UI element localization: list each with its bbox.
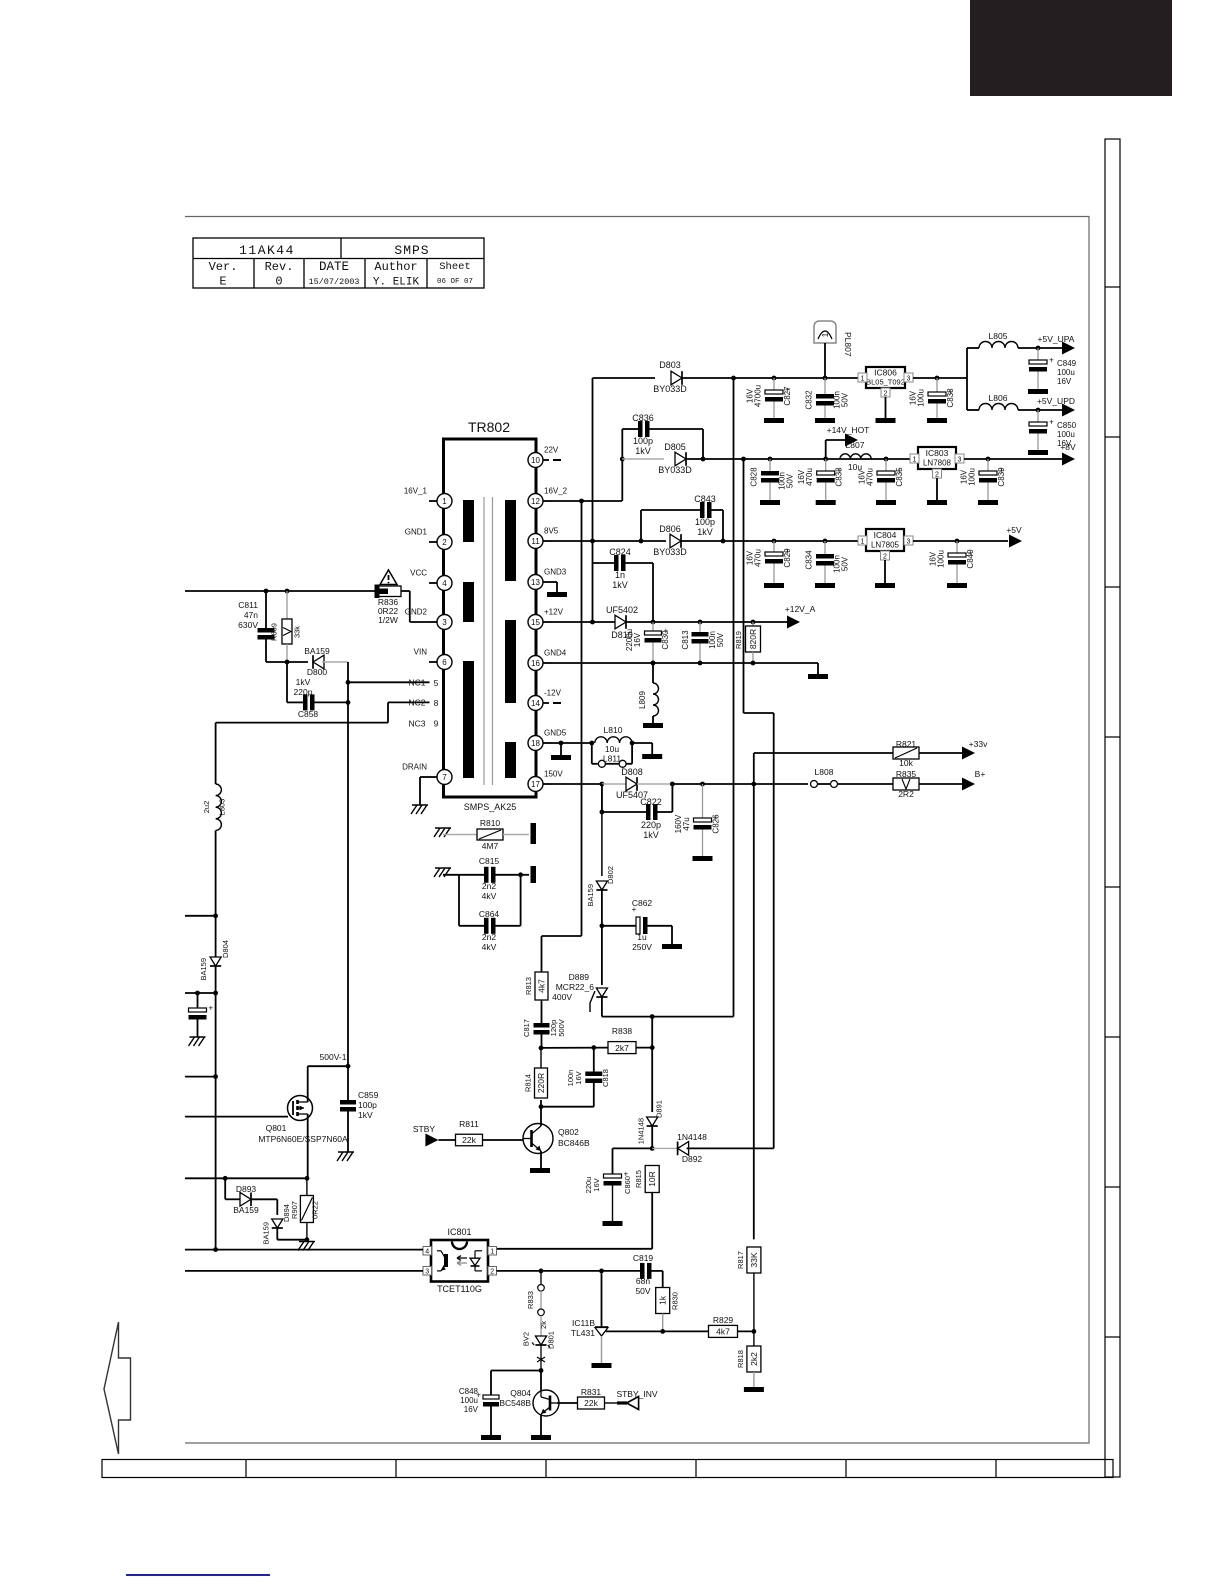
svg-text:Q802: Q802 xyxy=(558,1127,579,1137)
svg-text:16V: 16V xyxy=(858,469,867,484)
svg-text:18: 18 xyxy=(531,739,540,748)
node C849 xyxy=(1036,346,1041,351)
wire R821 feed riser xyxy=(753,753,755,784)
capacitor primary reservoir xyxy=(189,991,214,1037)
ground C826 xyxy=(693,856,713,861)
svg-text:630V: 630V xyxy=(238,620,258,630)
diode D803 BY033D xyxy=(653,360,687,394)
node C815 right xyxy=(518,872,523,877)
ground C839 xyxy=(978,500,998,505)
resistor R809 33k xyxy=(270,591,302,662)
capacitor C815 2n2 4kV xyxy=(443,856,521,901)
svg-text:470u: 470u xyxy=(754,549,763,567)
bus1 vertical D803 to D889 xyxy=(733,378,735,1017)
node bus2 top xyxy=(741,457,746,462)
node R821 feed on 150V rail xyxy=(751,782,756,787)
wire 500V-1 drain link xyxy=(308,1065,348,1067)
svg-text:+5V_UPA: +5V_UPA xyxy=(1038,334,1075,344)
svg-text:16V_1: 16V_1 xyxy=(404,487,428,496)
svg-text:C838: C838 xyxy=(946,388,955,408)
svg-text:R815: R815 xyxy=(634,1170,643,1188)
IC806 BL05_T092 xyxy=(858,367,913,418)
svg-text:SMPS: SMPS xyxy=(394,243,429,258)
svg-text:22k: 22k xyxy=(462,1135,476,1145)
bottom title strip xyxy=(102,1460,1113,1478)
svg-text:D801: D801 xyxy=(547,1331,556,1349)
svg-text:47u: 47u xyxy=(682,817,691,830)
node 500V-1 xyxy=(346,1064,351,1069)
ground GND3 xyxy=(547,592,567,597)
svg-text:C817: C817 xyxy=(522,1019,531,1037)
svg-text:L806: L806 xyxy=(989,393,1008,403)
svg-text:3: 3 xyxy=(442,618,447,627)
stub y993 with reservoir cap xyxy=(185,992,216,994)
inductor L810 10u xyxy=(589,725,632,754)
svg-text:2k2: 2k2 xyxy=(749,1352,759,1366)
inductor L809 xyxy=(638,663,659,723)
node left bus corner xyxy=(213,1247,218,1252)
title block table xyxy=(193,238,484,288)
svg-text:1: 1 xyxy=(821,332,830,337)
svg-text:50V: 50V xyxy=(635,1286,650,1296)
svg-text:L807: L807 xyxy=(846,440,865,450)
node D808 anode xyxy=(600,782,605,787)
capacitor C817 120p 500V xyxy=(522,1000,566,1048)
MOSFET Q801 MTP6N60E/SSP7N60A xyxy=(258,1066,348,1178)
svg-text:1: 1 xyxy=(490,1249,494,1256)
wire vertical 581 lower segment to R813 jog xyxy=(581,662,583,936)
svg-text:10R: 10R xyxy=(647,1171,657,1187)
svg-text:3: 3 xyxy=(425,1269,429,1276)
ground IC804 pin2 xyxy=(875,583,895,588)
svg-text:BV2: BV2 xyxy=(522,1332,531,1346)
svg-text:R838: R838 xyxy=(612,1026,633,1036)
wire IC801 pin2 row xyxy=(497,1270,641,1272)
node C827 xyxy=(772,376,777,381)
svg-text:MCR22_6: MCR22_6 xyxy=(556,982,595,992)
svg-text:+8V: +8V xyxy=(1060,442,1076,452)
svg-text:C826: C826 xyxy=(712,814,721,834)
svg-text:1n: 1n xyxy=(615,570,625,580)
ground C848 xyxy=(481,1435,501,1440)
svg-text:D893: D893 xyxy=(236,1184,257,1194)
svg-text:6: 6 xyxy=(442,658,447,667)
ground L810 xyxy=(642,754,662,759)
svg-text:16V: 16V xyxy=(960,469,969,484)
svg-text:R831: R831 xyxy=(581,1387,602,1397)
svg-text:1u: 1u xyxy=(637,932,647,942)
capacitor C860 220u 16V xyxy=(584,1148,652,1221)
svg-text:D806: D806 xyxy=(659,524,681,534)
svg-text:R811: R811 xyxy=(459,1119,479,1129)
earth primary cap xyxy=(189,1037,206,1046)
wire +12V to arrow xyxy=(626,621,787,623)
svg-text:12: 12 xyxy=(531,497,540,506)
svg-text:IC801: IC801 xyxy=(447,1227,471,1237)
svg-text:R907: R907 xyxy=(290,1201,299,1219)
svg-text:C858: C858 xyxy=(298,709,319,719)
svg-text:C827: C827 xyxy=(783,386,792,406)
svg-text:16V: 16V xyxy=(746,388,755,403)
right revision column xyxy=(1105,139,1120,1477)
node R907 bottom xyxy=(305,1237,310,1242)
svg-text:+: + xyxy=(1049,418,1054,427)
node D891/D892/R815 xyxy=(650,1146,655,1151)
svg-text:+14V_HOT: +14V_HOT xyxy=(827,425,870,435)
ground Q802 emitter xyxy=(530,1168,550,1173)
resistor R835 2R2 xyxy=(893,769,962,799)
svg-text:C862: C862 xyxy=(632,898,653,908)
capacitor C822 220p 1kV bridge xyxy=(600,784,673,840)
svg-text:1kV: 1kV xyxy=(358,1110,373,1120)
node Q801 source row xyxy=(305,1176,310,1181)
node C818 top xyxy=(591,1045,596,1050)
resistor R815 10R xyxy=(634,1166,659,1249)
svg-text:470u: 470u xyxy=(866,468,875,486)
svg-text:Ver.: Ver. xyxy=(209,260,238,274)
svg-text:Q804: Q804 xyxy=(510,1388,531,1398)
svg-text:+33v: +33v xyxy=(969,739,988,749)
svg-text:2: 2 xyxy=(883,554,887,561)
svg-text:100n: 100n xyxy=(566,1070,575,1087)
svg-text:100u: 100u xyxy=(917,389,926,407)
svg-text:BC846B: BC846B xyxy=(558,1138,590,1148)
svg-text:500V-1: 500V-1 xyxy=(320,1052,347,1062)
pin 14 -12V xyxy=(528,689,562,711)
wire IC804 out +5V xyxy=(913,540,1008,542)
svg-text:16V: 16V xyxy=(797,469,806,484)
pin 15 +12V xyxy=(528,608,564,630)
node GND4 C813 xyxy=(698,661,703,666)
svg-text:L810: L810 xyxy=(604,725,623,735)
svg-text:470u: 470u xyxy=(805,468,814,486)
svg-text:+5V: +5V xyxy=(1006,525,1022,535)
diode D810 UF5402 xyxy=(606,605,638,640)
node C862 left xyxy=(600,923,605,928)
wire D800 row y662 xyxy=(266,661,308,663)
ground C832 xyxy=(815,418,835,423)
svg-text:BY033D: BY033D xyxy=(653,384,687,394)
wire 14V rail xyxy=(744,458,915,460)
svg-text:16: 16 xyxy=(531,659,540,668)
diode D802 BA159 xyxy=(586,866,615,926)
node R833 top xyxy=(539,1269,544,1274)
svg-text:R819: R819 xyxy=(734,631,743,649)
capacitor C824 1n 1kV bridge xyxy=(593,547,654,622)
svg-text:R830: R830 xyxy=(671,1292,680,1310)
diode D806 BY033D xyxy=(653,524,687,557)
svg-text:9: 9 xyxy=(434,719,439,729)
svg-text:PL807: PL807 xyxy=(843,332,853,357)
svg-text:11AK44: 11AK44 xyxy=(239,243,295,258)
ground C835 xyxy=(876,500,896,505)
ground TL431 xyxy=(592,1363,612,1368)
transformer secondary winding bars xyxy=(505,500,516,581)
diode D804 BA159 xyxy=(199,940,230,980)
resistor R830 1k xyxy=(656,1288,680,1332)
warning triangle xyxy=(380,570,397,585)
stub y1077 xyxy=(185,1076,216,1078)
svg-text:1kV: 1kV xyxy=(612,580,628,590)
resistor R833 not fitted xyxy=(526,1271,548,1337)
svg-text:D889: D889 xyxy=(569,972,590,982)
svg-text:220R: 220R xyxy=(536,1073,546,1093)
svg-text:220u: 220u xyxy=(584,1177,593,1194)
svg-text:2: 2 xyxy=(935,472,939,479)
resistor R829 4k7 xyxy=(663,1315,754,1337)
output +5V xyxy=(1006,525,1022,548)
svg-text:VIN: VIN xyxy=(414,648,428,657)
resistor R831 22k xyxy=(557,1387,627,1409)
svg-text:3: 3 xyxy=(907,376,911,383)
svg-text:33K: 33K xyxy=(749,1252,759,1267)
inductor L803 2u2 xyxy=(202,784,227,830)
node GND5 ground tap xyxy=(559,741,564,746)
svg-text:GND5: GND5 xyxy=(544,729,567,738)
schematic frame xyxy=(185,217,1089,1444)
node C826 top xyxy=(700,782,705,787)
resistor R814 220R xyxy=(524,1048,548,1098)
node C843 left xyxy=(639,539,644,544)
stub y916 xyxy=(185,915,216,917)
node R838 right xyxy=(650,1045,655,1050)
wire split to L805/L806 xyxy=(966,378,968,410)
svg-text:C849: C849 xyxy=(1057,359,1077,368)
wire D889 cathode row y1016 xyxy=(602,1016,734,1018)
wire 8V5 to IC804 xyxy=(681,540,862,542)
capacitor C819 68n 50V xyxy=(633,1253,663,1296)
wire 150V rail to B+ xyxy=(672,783,808,785)
svg-text:VCC: VCC xyxy=(410,569,427,578)
wire +12V pin15 xyxy=(552,621,618,623)
output +12V_A xyxy=(785,604,816,629)
inductor L807 10u xyxy=(840,440,871,472)
ground GND5 xyxy=(560,743,562,755)
svg-text:R814: R814 xyxy=(524,1074,533,1092)
bus R821 to R817 xyxy=(753,784,755,1239)
node C813 top xyxy=(698,620,703,625)
capacitor C811 47n 630V xyxy=(238,591,274,662)
svg-text:4: 4 xyxy=(425,1249,429,1256)
page-left sheet arrow xyxy=(104,1322,131,1454)
pin 11 8V5 xyxy=(528,527,559,549)
svg-text:Rev.: Rev. xyxy=(265,260,294,274)
svg-text:16V: 16V xyxy=(464,1405,479,1414)
earth C859 xyxy=(337,1152,354,1161)
pin 16 GND4 xyxy=(528,649,567,671)
svg-text:22k: 22k xyxy=(584,1398,598,1408)
wire D891 riser xyxy=(651,1017,653,1048)
ground R818 xyxy=(744,1387,764,1392)
svg-text:L805: L805 xyxy=(989,331,1008,341)
earth pin7 xyxy=(420,776,429,778)
svg-text:C836: C836 xyxy=(632,413,654,423)
fusible resistor R836 0R22 1/2W xyxy=(375,585,430,626)
diode D893 BA159 xyxy=(225,1178,277,1215)
svg-text:Sheet: Sheet xyxy=(439,261,471,273)
svg-text:R833: R833 xyxy=(526,1291,535,1309)
resistor R819 820R xyxy=(734,622,761,663)
svg-text:220p: 220p xyxy=(641,820,661,830)
wire stub to IC801 pin3 xyxy=(185,1270,423,1272)
svg-text:3: 3 xyxy=(958,457,962,464)
svg-text:1kV: 1kV xyxy=(697,527,713,537)
wire snubber bus x348 down xyxy=(347,662,349,1067)
svg-text:+12V: +12V xyxy=(544,608,564,617)
svg-text:R818: R818 xyxy=(736,1350,745,1368)
capacitor C829 470u 16V xyxy=(746,541,793,583)
wire IC806 out xyxy=(913,377,967,379)
capacitor C850 100u 16V xyxy=(1029,410,1077,450)
ground C834 xyxy=(815,583,835,588)
svg-text:C835: C835 xyxy=(895,467,904,487)
svg-text:STBY_INV: STBY_INV xyxy=(616,1389,657,1399)
svg-text:DATE: DATE xyxy=(319,260,349,274)
ground C833 xyxy=(816,500,836,505)
svg-text:BC548B: BC548B xyxy=(499,1398,531,1408)
svg-text:C850: C850 xyxy=(1057,421,1077,430)
svg-text:160V: 160V xyxy=(674,814,683,833)
svg-text:TL431: TL431 xyxy=(571,1328,595,1338)
ground IC803 pin2 xyxy=(927,500,947,505)
ground C829 xyxy=(764,583,784,588)
svg-text:250V: 250V xyxy=(632,942,652,952)
svg-text:L809: L809 xyxy=(638,691,647,709)
stub y1178 source row xyxy=(185,1177,307,1179)
svg-text:5: 5 xyxy=(434,678,439,688)
output +5V_UPA xyxy=(1038,334,1075,355)
capacitor C862 1u 250V xyxy=(602,898,672,952)
svg-text:D803: D803 xyxy=(659,360,681,370)
svg-text:4k7: 4k7 xyxy=(716,1327,730,1337)
svg-text:220p: 220p xyxy=(294,687,313,697)
svg-text:GND1: GND1 xyxy=(405,528,428,537)
svg-text:47n: 47n xyxy=(244,610,258,620)
node D805 anode xyxy=(620,457,625,462)
inductor L806 xyxy=(967,393,1062,410)
svg-text:1: 1 xyxy=(861,539,865,546)
svg-text:D804: D804 xyxy=(221,940,230,958)
svg-text:1N4148: 1N4148 xyxy=(677,1132,707,1142)
terminator bar R810 xyxy=(531,823,537,844)
IC803 LN7808 xyxy=(910,447,964,500)
svg-text:LN7805: LN7805 xyxy=(871,541,900,550)
left bus vertical x215 xyxy=(215,723,217,784)
node R809 top xyxy=(285,589,290,594)
svg-text:4k7: 4k7 xyxy=(537,979,547,993)
svg-text:2: 2 xyxy=(442,538,447,547)
svg-text:1: 1 xyxy=(861,376,865,383)
svg-text:C830: C830 xyxy=(661,630,670,650)
node C840 xyxy=(955,539,960,544)
wire mains rail y591 xyxy=(185,590,376,592)
svg-text:4kV: 4kV xyxy=(482,942,497,952)
svg-text:R817: R817 xyxy=(736,1251,745,1269)
svg-text:2k7: 2k7 xyxy=(615,1043,629,1053)
zener D801 BV2 xyxy=(522,1331,556,1370)
svg-text:17: 17 xyxy=(531,780,540,789)
svg-text:22V: 22V xyxy=(544,446,559,455)
diode D800 BA159 xyxy=(304,646,348,677)
node C839 xyxy=(986,457,991,462)
svg-text:100u: 100u xyxy=(937,550,946,568)
svg-text:1: 1 xyxy=(913,457,917,464)
svg-text:8V5: 8V5 xyxy=(544,527,559,536)
svg-text:100u: 100u xyxy=(1057,368,1075,377)
svg-text:Q801: Q801 xyxy=(266,1123,287,1133)
svg-text:C833: C833 xyxy=(835,467,844,487)
svg-text:100p: 100p xyxy=(633,436,653,446)
svg-text:10: 10 xyxy=(531,456,540,465)
node GND4 R819 xyxy=(751,661,756,666)
ground C828 xyxy=(760,500,780,505)
ground L809 xyxy=(643,723,663,728)
svg-text:IC11B: IC11B xyxy=(572,1318,595,1328)
transformer core lines xyxy=(483,497,485,785)
capacitor C834 100n 50V xyxy=(805,541,850,583)
resistor R811 22k xyxy=(456,1119,523,1146)
pin 2 GND1 xyxy=(405,528,452,550)
svg-text:13: 13 xyxy=(531,578,540,587)
svg-text:+: + xyxy=(209,1004,214,1013)
svg-text:BY033D: BY033D xyxy=(658,465,692,475)
node 592/8V5 xyxy=(590,539,595,544)
wire x601 snubber vertical xyxy=(601,784,603,876)
left bus vertical below L803 xyxy=(215,831,217,1250)
svg-text:10u: 10u xyxy=(605,744,619,754)
svg-text:1: 1 xyxy=(442,497,447,506)
pin 3 GND2 xyxy=(405,608,452,630)
capacitor C843 100p 1kV bridge xyxy=(641,494,723,541)
ground C862 xyxy=(662,944,682,949)
svg-text:4kV: 4kV xyxy=(482,891,497,901)
svg-text:BA159: BA159 xyxy=(586,884,595,907)
svg-text:GND2: GND2 xyxy=(405,608,428,617)
svg-text:2200u: 2200u xyxy=(625,629,634,651)
svg-text:Author: Author xyxy=(374,260,417,274)
svg-text:400V: 400V xyxy=(552,992,572,1002)
bus2 vertical D805 to D892 xyxy=(743,459,745,713)
capacitor C826 47u 160V xyxy=(674,784,721,856)
svg-text:-12V: -12V xyxy=(544,689,562,698)
svg-text:3: 3 xyxy=(907,539,911,546)
ground C827 xyxy=(764,418,784,423)
svg-text:SMPS_AK25: SMPS_AK25 xyxy=(464,802,517,812)
svg-text:BA159: BA159 xyxy=(199,958,208,981)
diode D892 1N4148 xyxy=(652,1132,774,1164)
resistor R810 4M7 xyxy=(443,818,529,851)
svg-text:1kV: 1kV xyxy=(296,677,311,687)
svg-text:R810: R810 xyxy=(480,818,501,828)
node D891 branch xyxy=(650,1014,655,1019)
svg-text:DRAIN: DRAIN xyxy=(402,763,427,772)
node C829 xyxy=(772,539,777,544)
capacitor C818 100n 16V xyxy=(541,1047,610,1106)
node C811 xyxy=(264,589,269,594)
wire NC1 strike-through to pin5 xyxy=(348,681,430,683)
svg-text:100u: 100u xyxy=(460,1396,478,1405)
svg-text:100u: 100u xyxy=(1057,430,1075,439)
svg-text:L803: L803 xyxy=(218,799,227,816)
svg-text:MTP6N60E/SSP7N60A: MTP6N60E/SSP7N60A xyxy=(258,1134,348,1144)
svg-text:C848: C848 xyxy=(459,1387,479,1396)
wire vertical 581 down to GND4 area xyxy=(581,501,583,662)
jumper L808 xyxy=(811,767,894,788)
svg-text:BY033D: BY033D xyxy=(653,547,687,557)
jumper L811 not fitted xyxy=(592,741,635,768)
wire L810 out to ground xyxy=(632,742,652,744)
svg-text:IC803: IC803 xyxy=(926,448,949,458)
